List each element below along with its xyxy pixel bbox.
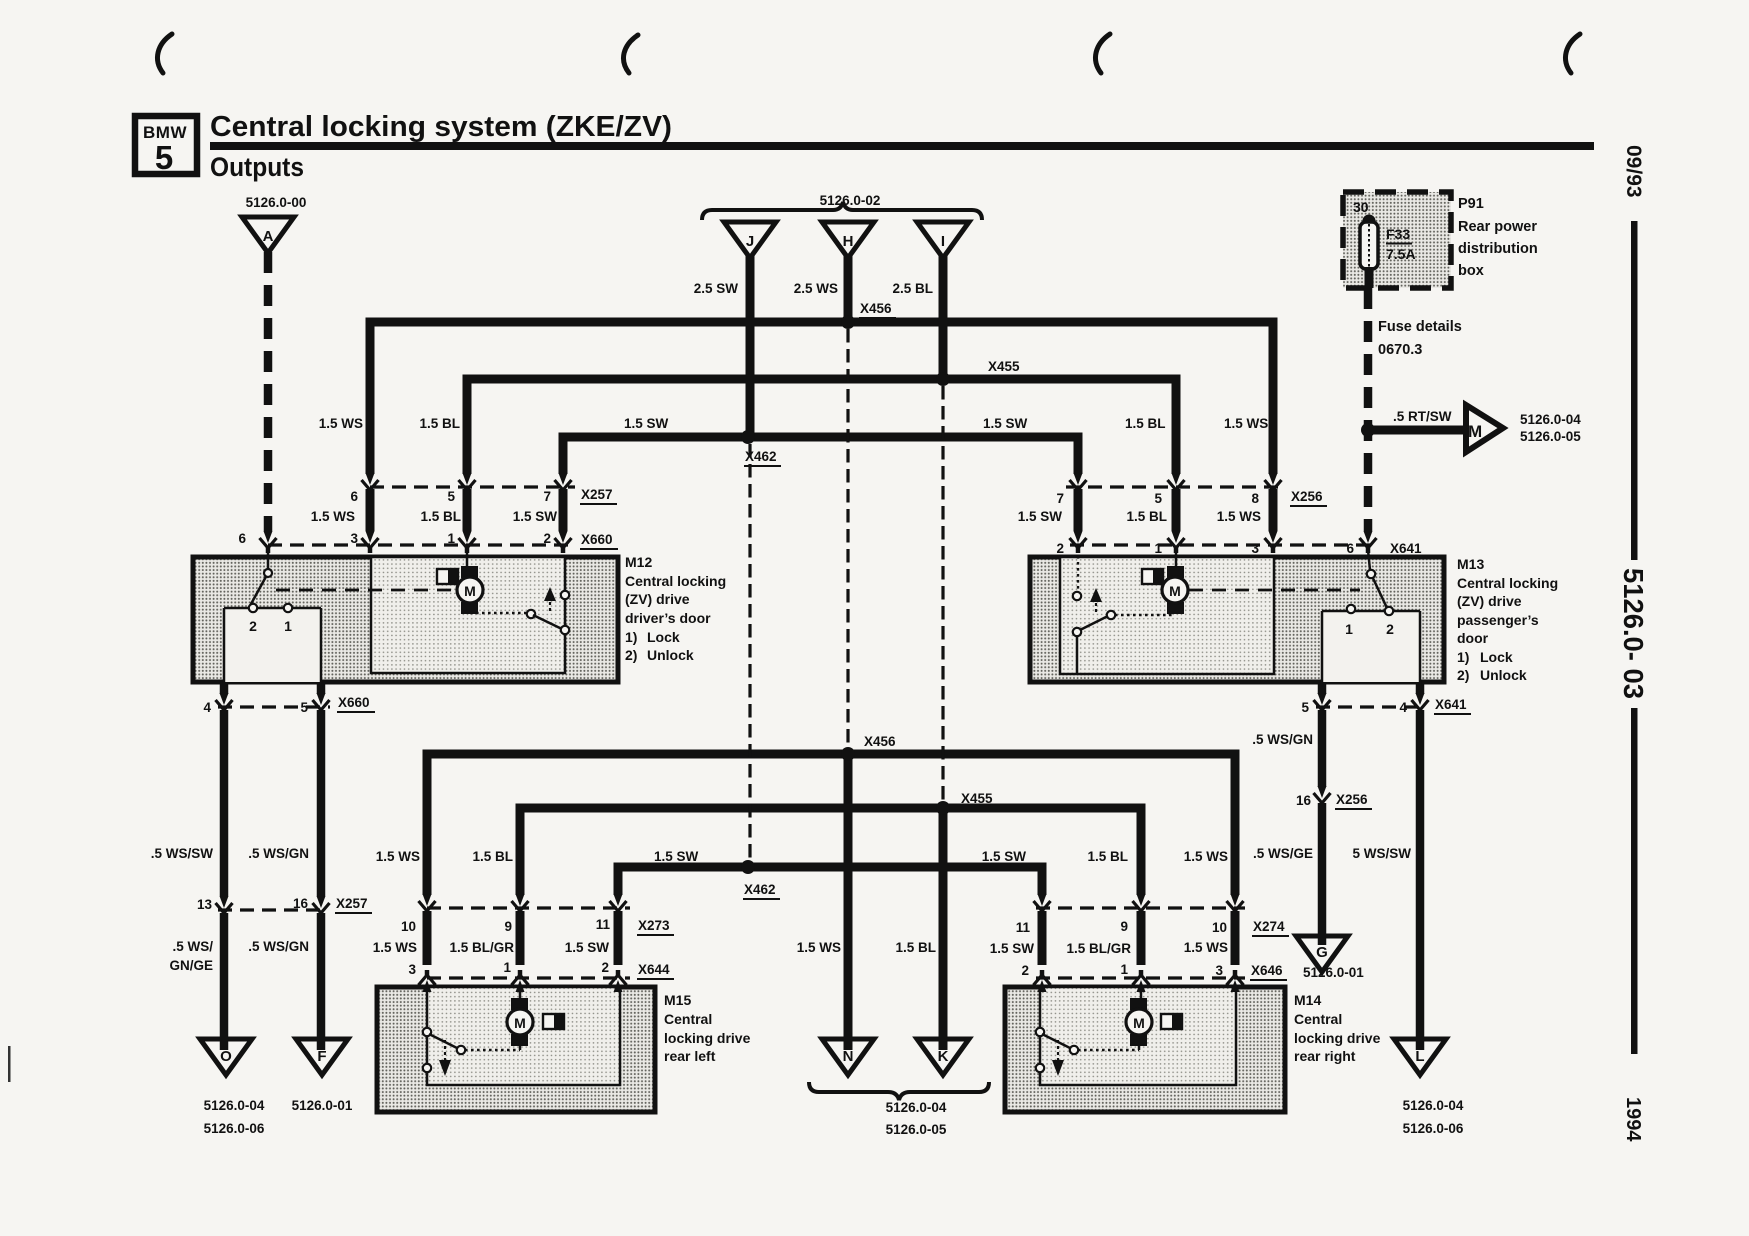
node X455 middle [936,801,950,815]
M13 pin wires X256 to X641 [1078,489,1273,531]
M12 switch sub-box [224,608,321,682]
fuse F33 symbol [1360,222,1378,269]
svg-text:3: 3 [408,962,416,977]
M15 caption [664,992,751,1064]
svg-text:1: 1 [1120,962,1128,977]
svg-text:5126.0-04: 5126.0-04 [204,1098,265,1113]
svg-text:P91: P91 [1458,196,1484,212]
svg-text:X462: X462 [744,882,776,897]
svg-text:2: 2 [1386,621,1394,637]
svg-text:1.5 BL/GR: 1.5 BL/GR [1066,941,1131,956]
fuse box P91 rear power distribution box [1343,192,1451,288]
svg-text:09/93: 09/93 [1622,145,1645,198]
connector label X257 lower [335,896,372,913]
scan artifact parenthesis 3 [1095,34,1110,73]
connector N triangle [822,1039,874,1075]
svg-text:8: 8 [1251,491,1259,506]
M12 pin6 lead to switch [267,550,270,570]
connector label X256 pin 16 [1335,792,1372,809]
X274 row dashed link [1036,906,1245,909]
svg-text:3: 3 [1215,963,1223,978]
svg-text:2: 2 [543,531,551,546]
connector O triangle [200,1039,252,1075]
svg-text:1.5 WS: 1.5 WS [1184,940,1228,955]
M12 actuation arrow up [544,587,556,601]
node on fuse wire for M branch [1361,423,1375,437]
M15 motor connector icon [543,1014,564,1029]
svg-text:1.5 BL: 1.5 BL [420,509,461,524]
pin labels X646 row [1021,962,1223,978]
svg-text:M14: M14 [1294,992,1321,1008]
svg-text:F33: F33 [1386,226,1410,242]
pin labels X641 lower [1301,700,1407,715]
M12 motor M1 [457,577,483,603]
fork pins X660 lower row (4,5) [216,693,233,715]
node label X456 middle [863,734,900,751]
svg-text:A: A [263,228,274,245]
wire: I dashed continuation to X455 middle [941,386,944,803]
svg-text:5: 5 [155,139,173,176]
wire labels between X274 and X646 [990,940,1228,956]
svg-text:1: 1 [503,960,511,975]
pin labels X274 row [1016,919,1227,935]
svg-text:box: box [1458,263,1484,279]
M13 drive switch arm [1078,615,1110,631]
BMW logo box [135,116,197,176]
M12 interior [224,550,569,684]
M12 switch contact rail [224,608,321,684]
wire stub into G [1318,938,1327,945]
pin number labels X660 row [238,531,551,546]
svg-text:.5 WS/: .5 WS/ [172,939,213,954]
svg-text:9: 9 [504,919,512,934]
svg-text:10: 10 [401,919,416,934]
svg-text:1994: 1994 [1622,1097,1644,1142]
M13 upper contact [1073,592,1081,600]
svg-text:1.5 WS: 1.5 WS [797,940,841,955]
svg-text:locking drive: locking drive [1294,1030,1381,1046]
connector label X256 [1290,489,1327,506]
brace 5126.0-04/05 under N K [809,1082,989,1100]
M12 drive switch upper contact [561,591,569,599]
svg-text:I: I [941,233,945,250]
M13 motor terminals [1167,566,1184,578]
svg-text:1.5 SW: 1.5 SW [654,849,699,864]
node label X455 middle [960,791,997,808]
wire stub into N [844,1041,853,1050]
X256 row dashed link [1066,485,1281,488]
X641 row dashed link [1070,543,1376,546]
svg-text:1: 1 [1154,541,1162,556]
svg-text:10: 10 [1212,920,1227,935]
connector label X646 [1250,963,1287,980]
wire: N drop from X456 middle node [844,754,853,1040]
svg-text:.5 RT/SW: .5 RT/SW [1393,409,1452,424]
svg-text:2: 2 [1021,963,1029,978]
svg-text:M: M [464,583,476,599]
M15 dotted link to motor [465,1049,520,1052]
M15 pin wires X273 to X644 [427,911,618,965]
svg-text:1.5 WS: 1.5 WS [376,849,420,864]
svg-text:11: 11 [1016,920,1031,935]
node label X455 top [987,359,1024,376]
svg-text:1.5 SW: 1.5 SW [990,941,1035,956]
pin labels X644 row [408,960,609,977]
node X456 middle [841,747,855,761]
svg-text:1.5 SW: 1.5 SW [983,416,1028,431]
svg-text:Lock: Lock [647,629,680,645]
svg-text:5126.0-05: 5126.0-05 [886,1122,947,1137]
svg-text:1: 1 [1345,621,1353,637]
svg-text:6: 6 [350,489,358,504]
svg-text:Fuse details: Fuse details [1378,319,1462,335]
fork pins X646 row (2,1,3) [1034,970,1051,992]
M14 motor M4 [1126,1009,1152,1035]
M15 lower contact [423,1064,431,1072]
svg-text:X456: X456 [860,301,892,316]
M15 actuation arrow down [444,1040,446,1060]
svg-text:X644: X644 [638,962,670,977]
wire: .5 RT/SW branch to M [1368,426,1464,435]
svg-text:1.5 WS: 1.5 WS [1224,416,1268,431]
svg-text:5126.0- 03: 5126.0- 03 [1618,568,1649,699]
fork pins X257 lower row (13,16) [216,896,233,918]
svg-text:driver’s door: driver’s door [625,610,711,626]
svg-text:1.5 BL: 1.5 BL [1087,849,1128,864]
fork pins X256 row (7,5,8) [1070,473,1087,495]
M13 interior [1073,550,1420,684]
svg-text:2.5 WS: 2.5 WS [794,281,838,296]
svg-text:Unlock: Unlock [647,647,694,663]
svg-text:1): 1) [625,629,637,645]
wire: bus X456 middle (1.5 WS to rear) [427,754,1235,895]
svg-text:X257: X257 [336,896,368,911]
svg-text:H: H [843,233,854,250]
svg-text:X455: X455 [961,791,993,806]
svg-text:X660: X660 [581,532,613,547]
M14 pin wires X274 to X646 [1042,911,1235,965]
M13 bottom stubs to X641 lower [1322,684,1420,694]
svg-text:5126.0-05: 5126.0-05 [1520,429,1581,444]
scan artifact parenthesis 4 [1565,34,1580,73]
svg-text:X455: X455 [988,359,1020,374]
connector M arrow right [1466,405,1503,452]
svg-text:M: M [1133,1015,1145,1031]
wire labels left column [151,846,309,861]
svg-text:distribution: distribution [1458,241,1538,257]
M14 upper contact [1036,1028,1044,1036]
svg-text:1.5 BL: 1.5 BL [419,416,460,431]
wire: connector J drop 2.5 SW [746,254,755,437]
M12 inner compartment box [371,557,565,673]
sidebar rule upper [1631,221,1638,560]
svg-text:Rear power: Rear power [1458,219,1537,235]
svg-text:GN/GE: GN/GE [169,958,213,973]
X273 row dashed link [427,906,630,909]
node label X462 top [744,449,781,466]
M12 mechanical link dashed [276,589,452,592]
svg-text:(ZV) drive: (ZV) drive [625,591,690,607]
svg-text:7.5A: 7.5A [1386,246,1416,262]
svg-text:1.5 BL: 1.5 BL [895,940,936,955]
svg-text:N: N [843,1048,854,1065]
labels .5 WS/GN/GE and .5 WS/GN lower [169,939,309,973]
pin labels X257 lower [197,896,309,912]
connector label X274 [1252,919,1289,936]
fork pins X660 row (6,3,1,2) [260,531,277,553]
module M12 Central locking drive driver's door: body [193,557,618,682]
fork pin X256 pin 16 [1314,786,1331,808]
svg-text:2.5 SW: 2.5 SW [694,281,739,296]
M12 caption [625,554,726,663]
wire labels between X256 and X641 [1018,509,1261,524]
M13 switch contact rail [1322,611,1420,684]
connector F triangle [296,1039,348,1075]
svg-text:1.5 SW: 1.5 SW [565,940,610,955]
connector label X660 lower [337,695,375,712]
wire stub into O [220,1041,229,1050]
svg-text:M15: M15 [664,992,691,1008]
svg-text:.5 WS/GN: .5 WS/GN [1252,732,1313,747]
svg-text:.5 WS/GN: .5 WS/GN [248,846,309,861]
pin number labels X257 row [350,489,551,504]
fork pins X641 row (2,1,3,6) [1070,531,1087,553]
fork pins X257 row (6,5,7) [362,473,379,495]
pin labels X660 lower [203,700,308,715]
node label X456 top [859,301,896,318]
wire: H dashed continuation to X456 middle [846,329,849,749]
X646 row dashed link [1036,976,1245,979]
svg-text:X641: X641 [1390,541,1422,556]
svg-text:6: 6 [1346,541,1354,556]
scan artifact left edge tick [8,1046,11,1082]
M14 switch arm [1042,1034,1072,1049]
connector label X644 [637,962,674,979]
svg-text:5126.0-01: 5126.0-01 [1303,965,1364,980]
svg-text:Central: Central [1294,1011,1342,1027]
svg-text:1.5 WS: 1.5 WS [1184,849,1228,864]
M12 motor connector icon [437,569,458,584]
wire: bus X455 top (1.5 BL) [467,379,1176,474]
svg-text:1.5 BL: 1.5 BL [1125,416,1166,431]
svg-text:5: 5 [1154,491,1162,506]
pin labels X273 row [401,917,611,934]
M13 drive dotted link to motor [1115,614,1175,617]
M14 interior [1036,998,1182,1084]
connector J triangle [724,222,776,258]
M13 motor M2 [1162,577,1188,603]
wire: K drop from X455 middle node [939,808,948,1040]
svg-text:5: 5 [1301,700,1309,715]
wire .5 WS/GE down to G [1318,803,1327,936]
wire size labels top drops [694,281,933,296]
M13 inner compartment box [1060,557,1274,674]
wire stub into L [1416,1041,1425,1050]
labels 1.5 WS and 1.5 BL at N K [797,940,936,955]
svg-text:M12: M12 [625,554,652,570]
svg-text:L: L [1415,1048,1424,1065]
svg-text:4: 4 [1399,700,1407,715]
pin number labels X256 row [1056,491,1259,506]
svg-text:2: 2 [1056,541,1064,556]
svg-text:1.5 WS: 1.5 WS [373,940,417,955]
svg-text:7: 7 [1056,491,1064,506]
bus labels upper [319,416,1269,431]
svg-text:11: 11 [596,917,611,932]
wire 5 WS/SW down to L [1416,710,1425,1040]
svg-text:2): 2) [1457,667,1469,683]
node X455 top [936,372,950,386]
svg-text:5126.0-06: 5126.0-06 [204,1121,265,1136]
connector label X641 [1389,541,1426,558]
connector G triangle [1296,936,1348,972]
M12 pin wires X257 to X660 [370,489,563,531]
M14 actuation arrow down [1057,1040,1059,1060]
wire labels between X257 and X660 [311,509,558,524]
wire .5 WS/GN down to F [317,913,326,1040]
svg-text:5126.0-04: 5126.0-04 [1520,412,1581,427]
wire: J dashed continuation to X462 middle [748,444,751,862]
svg-text:X660: X660 [338,695,370,710]
M12 contact 1 [284,604,292,612]
M15 upper contact [423,1028,431,1036]
module M15 Central locking drive rear left: body [377,987,655,1112]
svg-text:G: G [1316,944,1328,961]
M14 lower contact [1036,1064,1044,1072]
svg-text:J: J [746,233,754,250]
svg-text:3: 3 [350,531,358,546]
M13 caption [1457,556,1558,683]
node X462 middle [741,860,755,874]
svg-text:5: 5 [447,489,455,504]
wire stub into K [939,1041,948,1050]
svg-text:X456: X456 [864,734,896,749]
svg-text:1.5 BL: 1.5 BL [472,849,513,864]
M14 inner compartment box [1040,987,1236,1085]
svg-text:X646: X646 [1251,963,1283,978]
M12 drive switch arm [533,615,564,630]
M14 motor connector icon [1161,1014,1182,1029]
scan artifact parenthesis 1 [157,34,172,73]
svg-text:X257: X257 [581,487,613,502]
node X462 top [741,430,755,444]
svg-text:5126.0-01: 5126.0-01 [292,1098,353,1113]
svg-text:door: door [1457,630,1489,646]
svg-text:1.5 BL/GR: 1.5 BL/GR [449,940,514,955]
svg-text:X641: X641 [1435,697,1467,712]
svg-text:5126.0-04: 5126.0-04 [886,1100,947,1115]
svg-text:5126.0-02: 5126.0-02 [820,193,881,208]
X660 lower row dashed link [218,705,330,708]
M13 lock switch arm [1371,574,1387,608]
title underline [210,142,1594,150]
M15 motor terminals [511,998,528,1010]
svg-text:2: 2 [249,618,257,634]
svg-text:K: K [938,1048,949,1065]
svg-text:2: 2 [601,960,609,975]
M13 pin1 lead to motor [1175,550,1178,566]
svg-text:2.5 BL: 2.5 BL [892,281,933,296]
fork pins X273 row (10,9,11) [419,894,436,916]
X257 row dashed link [370,485,575,488]
module M13 Central locking drive passenger's door: body [1030,557,1444,682]
wire: fuse output dashed drop to X641 pin 6 [1364,288,1373,531]
fork pins X641 lower row (5,4) [1314,693,1331,715]
M15 switch arm [429,1034,459,1049]
fuse lower stub inside box [1365,267,1374,288]
connector label X641 lower [1434,697,1471,714]
svg-text:X256: X256 [1291,489,1323,504]
M12 bottom stubs to X660 lower [224,684,321,694]
svg-text:rear left: rear left [664,1048,716,1064]
wire: bus X455 middle (1.5 BL to rear) [520,808,1141,895]
wire .5 WS/GN down to X257 lower [317,710,326,896]
M12 drive switch pivot [527,610,535,618]
connector label X660 [580,532,618,549]
M12 pin1 lead to motor [466,550,469,566]
terminal 30 dot [1363,215,1376,228]
svg-text:M13: M13 [1457,556,1484,572]
connector label X273 [637,918,674,935]
M13 pin6 lead to lock switch [1368,550,1370,570]
svg-text:Unlock: Unlock [1480,667,1527,683]
M15 inner compartment box [427,987,620,1085]
caption Fuse details 0670.3 [1378,319,1462,358]
connector L triangle [1394,1039,1446,1075]
X644 row dashed link [427,976,630,979]
connector I triangle [917,222,969,258]
svg-text:3: 3 [1251,541,1259,556]
M14 dotted link to motor [1078,1049,1139,1052]
svg-text:Central: Central [664,1011,712,1027]
X641 lower row dashed link [1316,705,1426,708]
svg-text:M: M [1468,422,1482,441]
svg-text:1.5 SW: 1.5 SW [513,509,558,524]
svg-text:locking drive: locking drive [664,1030,751,1046]
M15 interior [423,998,564,1084]
module M14 Central locking drive rear right: body [1005,987,1285,1112]
svg-text:O: O [220,1048,232,1065]
svg-text:1: 1 [447,531,455,546]
svg-text:5: 5 [300,700,308,715]
connector H triangle [822,222,874,258]
M13 actuation arrow up [1090,588,1102,602]
connector label X257 [580,487,617,504]
X660 row dashed link [268,543,575,546]
M13 contact 2 [1385,607,1393,615]
svg-text:1: 1 [284,618,292,634]
wire: bus X456 top (1.5 WS) [370,322,1273,474]
svg-text:Central locking: Central locking [625,573,726,589]
M12 motor to drive switch dotted [470,612,527,615]
svg-text:X274: X274 [1253,919,1285,934]
sidebar rule lower [1631,708,1638,1054]
svg-text:13: 13 [197,897,213,912]
svg-text:.5 WS/GN: .5 WS/GN [248,939,309,954]
svg-text:1.5 SW: 1.5 SW [1018,509,1063,524]
svg-text:1.5 WS: 1.5 WS [1217,509,1261,524]
M13 motor connector icon [1142,569,1163,584]
svg-text:(ZV) drive: (ZV) drive [1457,593,1522,609]
M14 motor terminals [1130,998,1147,1010]
M13 switch sub-box [1322,611,1420,682]
M12 lock switch arm [251,573,268,604]
svg-text:F: F [317,1048,326,1065]
svg-text:X273: X273 [638,918,670,933]
svg-text:6: 6 [238,531,246,546]
rear bus wire labels [376,849,1228,864]
wire stub into F [317,1041,326,1050]
